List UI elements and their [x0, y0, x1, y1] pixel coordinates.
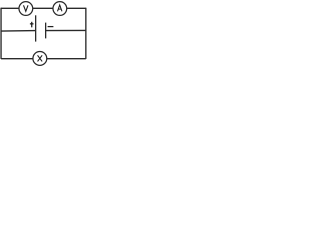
battery positive long plate	[35, 15, 37, 41]
battery polarity label +	[30, 22, 34, 28]
ammeter A1 circle	[53, 2, 67, 16]
wire bottom-left (left rail to lamp X)	[1, 58, 33, 60]
wire bottom-right (lamp X to right rail)	[47, 58, 86, 60]
voltmeter V1 circle	[19, 2, 33, 16]
battery negative short plate	[45, 23, 47, 39]
ammeter A1 letter A	[58, 5, 62, 11]
wire top-left (battery + to voltmeter)	[1, 7, 19, 9]
wire middle-left (left rail to battery positive plate)	[1, 30, 36, 33]
wire top-right (ammeter to right rail)	[67, 7, 86, 9]
lamp X circle	[33, 52, 47, 66]
voltmeter V1 letter V	[24, 5, 29, 11]
battery polarity label -	[48, 26, 54, 28]
wire left rail	[0, 8, 2, 59]
wire top-middle (voltmeter to ammeter)	[33, 7, 53, 9]
wire middle-right (battery negative plate to right rail)	[46, 29, 86, 31]
lamp X letter X	[38, 55, 43, 61]
wire right rail	[85, 8, 87, 59]
